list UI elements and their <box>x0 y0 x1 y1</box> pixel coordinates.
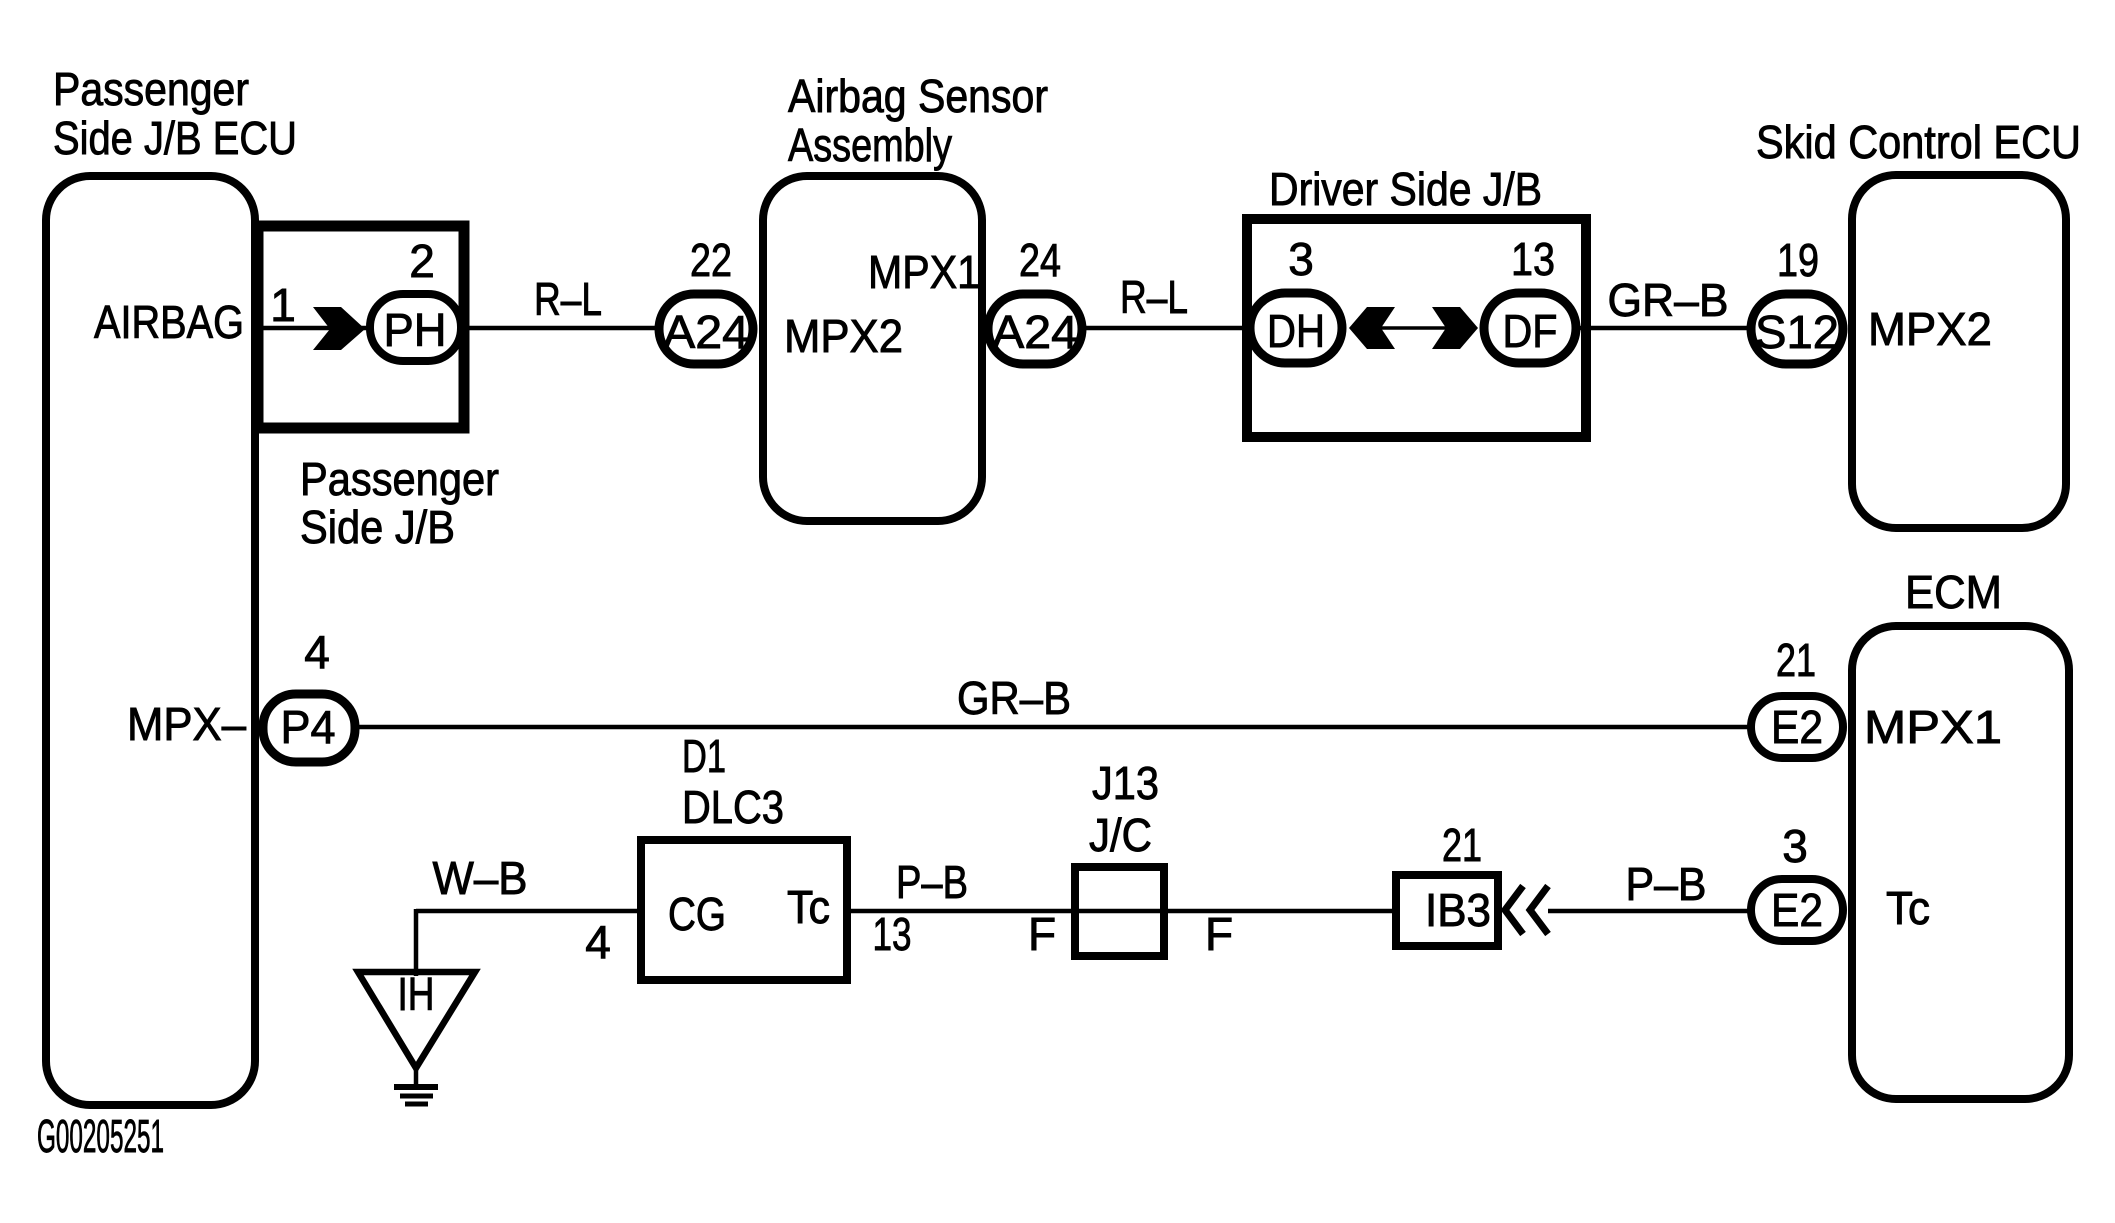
svg-text:3: 3 <box>1782 820 1808 872</box>
svg-text:R–L: R–L <box>1120 271 1188 323</box>
svg-text:S12: S12 <box>1755 306 1839 358</box>
svg-text:MPX1: MPX1 <box>1864 701 2002 753</box>
svg-text:P4: P4 <box>281 701 336 753</box>
svg-text:Passenger: Passenger <box>53 63 249 115</box>
svg-text:IH: IH <box>398 968 435 1020</box>
svg-text:GR–B: GR–B <box>957 672 1071 724</box>
svg-text:Driver Side J/B: Driver Side J/B <box>1269 163 1542 215</box>
svg-text:E2: E2 <box>1771 884 1823 936</box>
svg-text:4: 4 <box>585 916 611 968</box>
svg-text:CG: CG <box>668 888 726 940</box>
svg-text:DH: DH <box>1267 305 1325 357</box>
svg-text:P–B: P–B <box>896 856 968 908</box>
svg-text:Airbag Sensor: Airbag Sensor <box>788 70 1048 122</box>
svg-text:3: 3 <box>1288 233 1314 285</box>
svg-text:2: 2 <box>409 235 435 287</box>
svg-text:J13: J13 <box>1092 757 1159 809</box>
svg-text:4: 4 <box>304 626 330 678</box>
svg-text:F: F <box>1028 908 1056 960</box>
svg-text:13: 13 <box>873 908 912 960</box>
svg-text:Side J/B: Side J/B <box>300 501 455 553</box>
svg-text:Tc: Tc <box>1886 882 1930 934</box>
svg-text:GR–B: GR–B <box>1608 274 1729 326</box>
svg-text:A24: A24 <box>663 306 749 358</box>
svg-text:21: 21 <box>1776 634 1816 686</box>
svg-text:P–B: P–B <box>1626 858 1707 910</box>
svg-text:Skid Control ECU: Skid Control ECU <box>1756 116 2081 168</box>
svg-text:W–B: W–B <box>433 852 528 904</box>
svg-text:A24: A24 <box>992 306 1078 358</box>
svg-text:ECM: ECM <box>1905 566 2002 618</box>
svg-text:24: 24 <box>1019 234 1061 286</box>
svg-text:22: 22 <box>690 234 732 286</box>
svg-text:F: F <box>1205 908 1233 960</box>
svg-text:19: 19 <box>1777 234 1819 286</box>
svg-text:IB3: IB3 <box>1425 884 1491 936</box>
svg-text:MPX2: MPX2 <box>1868 303 1992 355</box>
svg-text:1: 1 <box>270 279 296 331</box>
svg-text:MPX2: MPX2 <box>784 310 903 362</box>
svg-text:PH: PH <box>384 304 447 356</box>
svg-text:21: 21 <box>1442 819 1482 871</box>
svg-text:DF: DF <box>1503 305 1558 357</box>
svg-text:Passenger: Passenger <box>300 453 499 505</box>
svg-text:J/C: J/C <box>1089 809 1152 861</box>
svg-text:MPX–: MPX– <box>127 698 246 750</box>
svg-text:G00205251: G00205251 <box>37 1110 164 1162</box>
svg-text:Tc: Tc <box>787 881 830 933</box>
svg-text:MPX1: MPX1 <box>868 246 980 298</box>
svg-text:DLC3: DLC3 <box>682 781 784 833</box>
svg-text:D1: D1 <box>682 730 726 782</box>
svg-text:E2: E2 <box>1771 701 1823 753</box>
svg-text:13: 13 <box>1511 233 1555 285</box>
svg-text:AIRBAG: AIRBAG <box>94 296 244 348</box>
svg-text:Assembly: Assembly <box>788 119 952 171</box>
svg-text:R–L: R–L <box>534 273 602 325</box>
svg-text:Side J/B ECU: Side J/B ECU <box>53 112 297 164</box>
